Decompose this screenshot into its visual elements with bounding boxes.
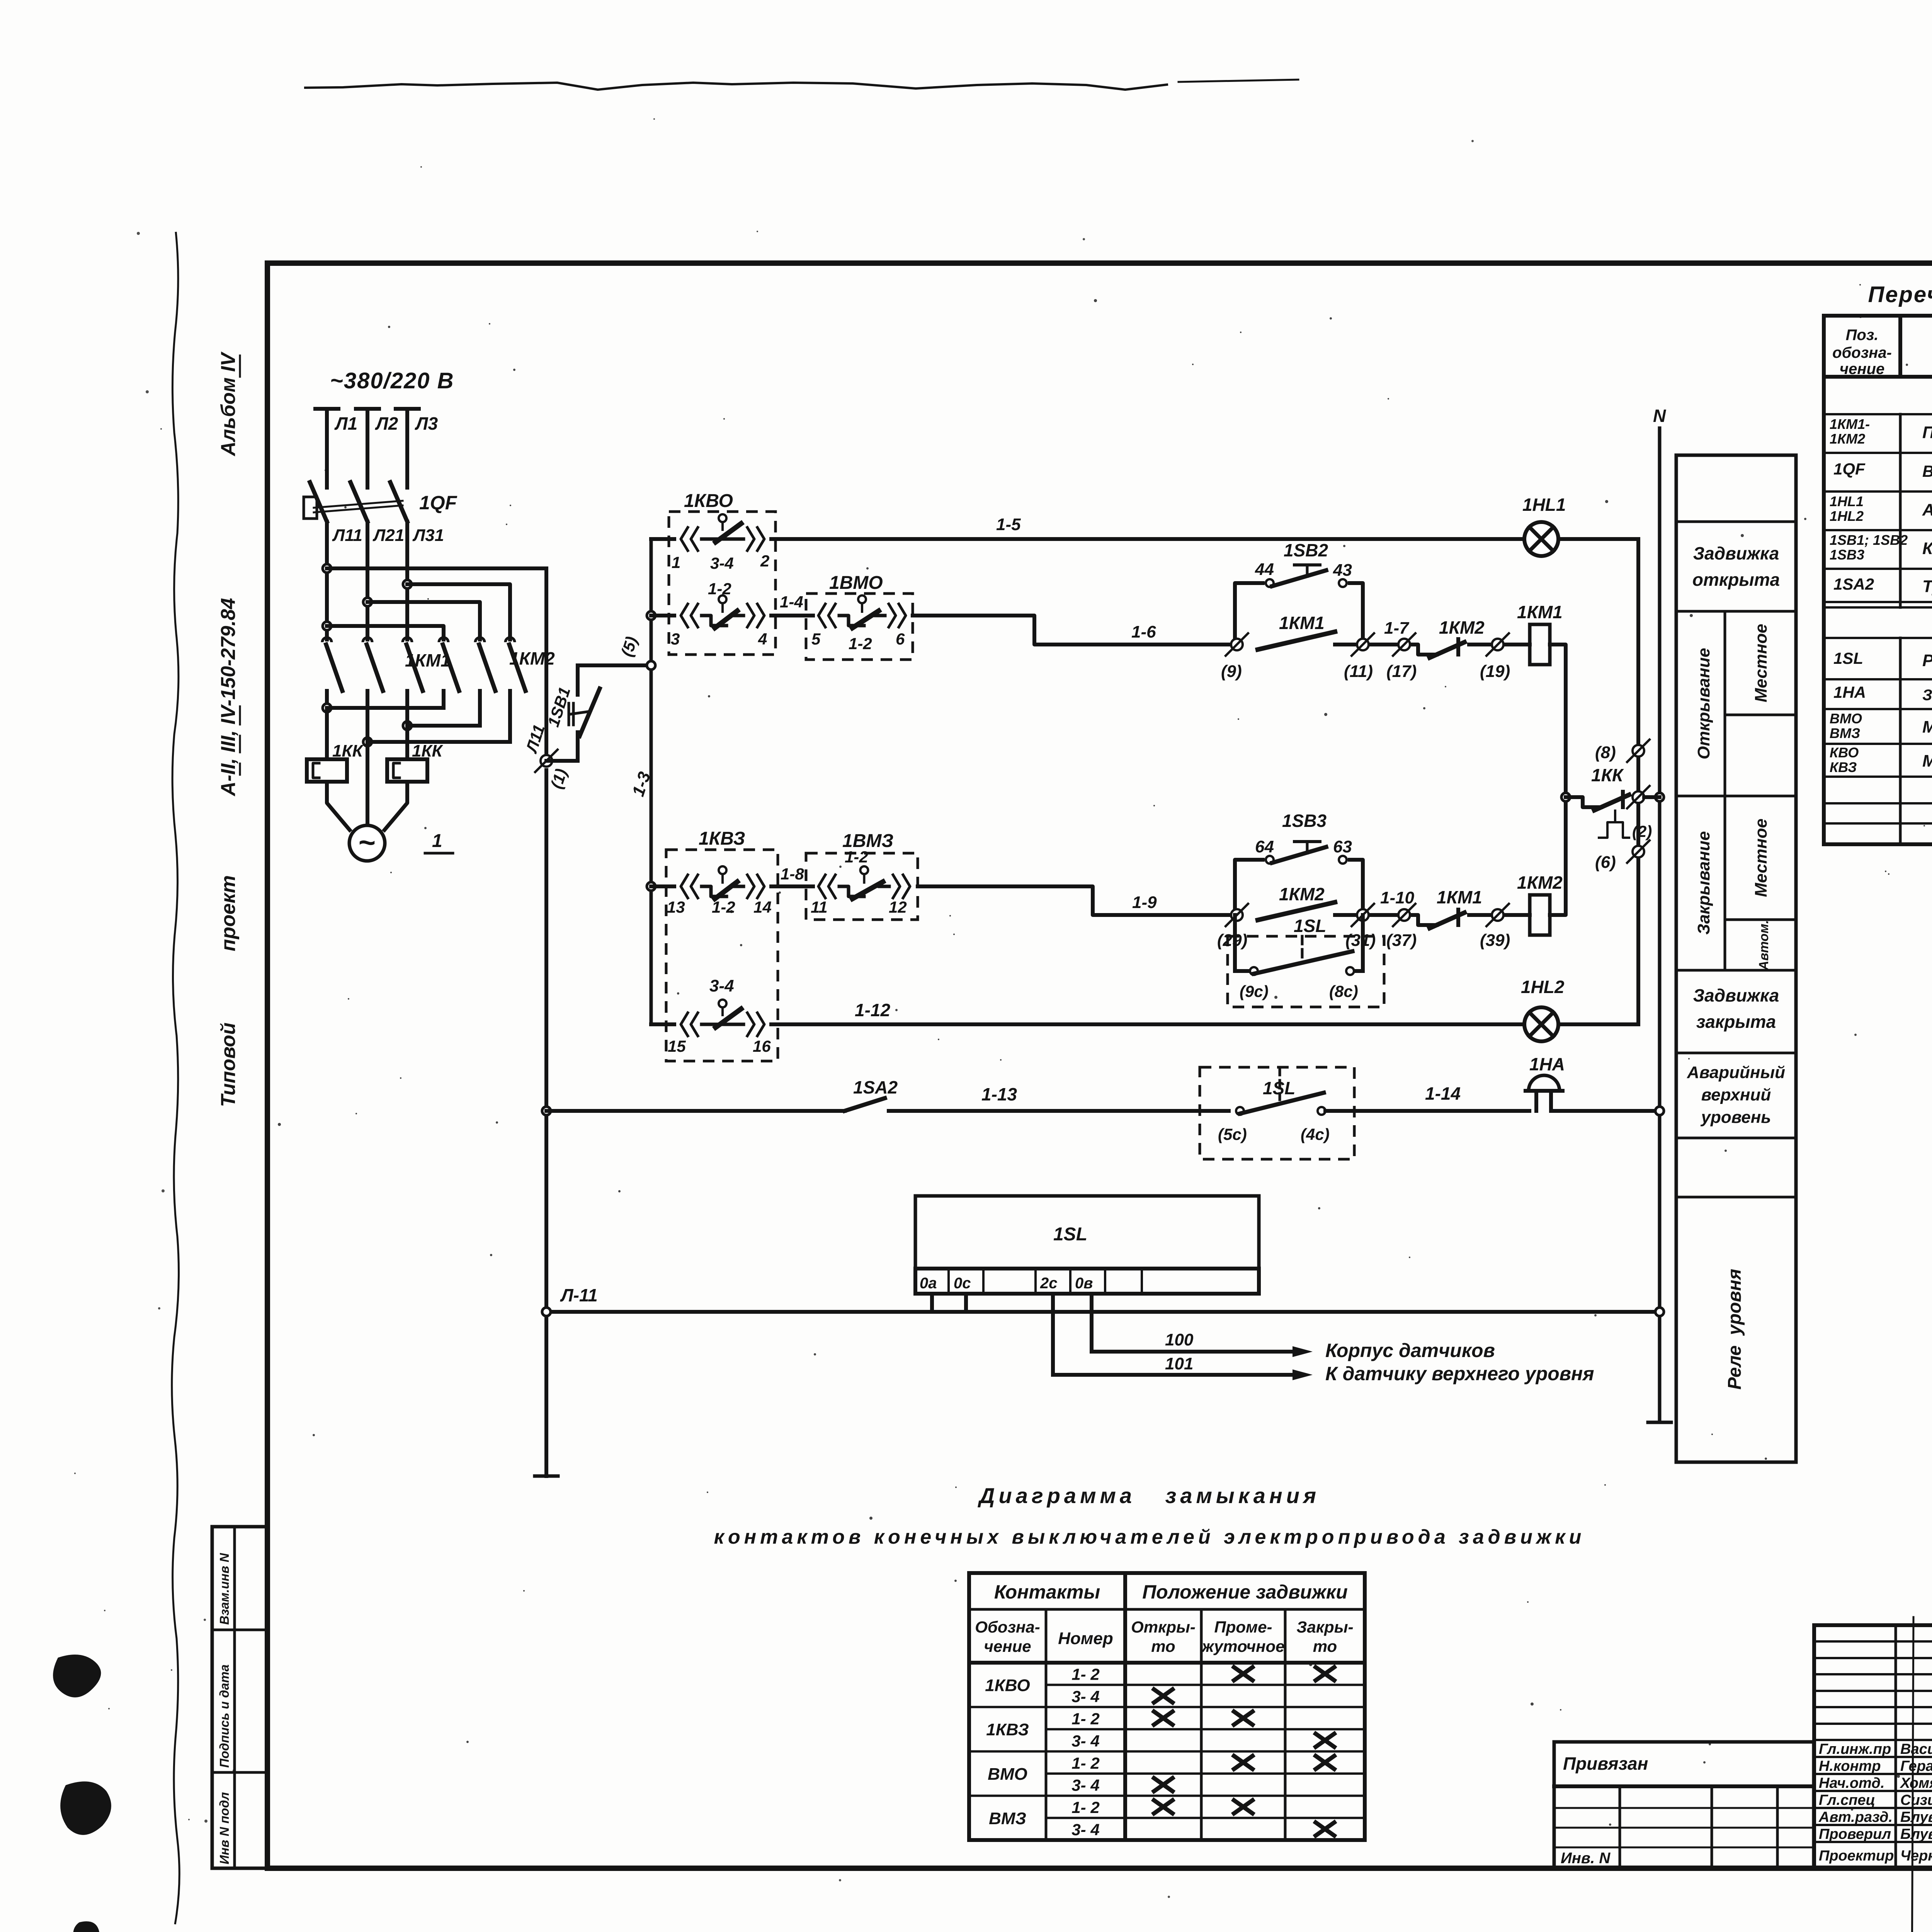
function strip row line bbox=[1676, 795, 1796, 798]
svg-text:контактов конечных выключателе: контактов конечных выключателей электроп… bbox=[714, 1526, 1585, 1548]
level relay 1SL dashed box (close) bbox=[1228, 936, 1384, 1007]
svg-text:Подпись и дата: Подпись и дата bbox=[217, 1665, 231, 1768]
scan artifact: top scratch line bbox=[305, 83, 1167, 90]
svg-text:(29): (29) bbox=[1217, 931, 1247, 950]
node N rail at alarm rung bbox=[1655, 1107, 1664, 1115]
limit switch 1KVZ contact 3-4 bbox=[681, 1013, 688, 1036]
pushbutton 1SB2 plunger bbox=[1306, 565, 1309, 577]
node on L21 crossover bbox=[363, 598, 372, 606]
pushbutton 1SB2 terminals bbox=[1266, 579, 1274, 587]
privyazan outer bbox=[1554, 1742, 1814, 1868]
svg-text:Л2: Л2 bbox=[375, 413, 398, 434]
diagram header row line2 bbox=[969, 1661, 1365, 1665]
parts table column line seg2 bbox=[1899, 414, 1902, 607]
1SL terminal divider bbox=[1069, 1269, 1071, 1294]
svg-text:(37): (37) bbox=[1386, 931, 1417, 950]
parts table row line bbox=[1824, 637, 1932, 639]
contactor 1KM2 main pole 1 bbox=[439, 638, 448, 642]
contactor 1KM2 main pole 2 bbox=[475, 638, 485, 642]
title block sig row line bbox=[1814, 1773, 1932, 1775]
svg-text:КВЗ: КВЗ bbox=[1830, 759, 1857, 775]
diagram col line prome bbox=[1200, 1609, 1203, 1840]
svg-text:Л31: Л31 bbox=[412, 526, 444, 545]
title block left grid row bbox=[1814, 1640, 1932, 1643]
wire 1SL branch left bbox=[1233, 915, 1237, 971]
svg-text:Хомяк: Хомяк bbox=[1900, 1775, 1932, 1791]
diagram row line bbox=[1046, 1728, 1365, 1730]
svg-text:открыта: открыта bbox=[1692, 570, 1780, 590]
svg-text:Нач.отд.: Нач.отд. bbox=[1819, 1775, 1884, 1791]
connection (11) bbox=[1357, 639, 1369, 650]
svg-text:1SB2: 1SB2 bbox=[1284, 540, 1328, 560]
svg-text:Гл.спец: Гл.спец bbox=[1819, 1792, 1875, 1808]
parts table column line seg1 bbox=[1898, 316, 1902, 377]
svg-text:44: 44 bbox=[1255, 560, 1274, 579]
svg-text:1HL2: 1HL2 bbox=[1830, 508, 1864, 524]
diagram X 1КВО 1- 2 col2 bbox=[1316, 1667, 1334, 1680]
svg-text:0в: 0в bbox=[1075, 1275, 1093, 1292]
svg-text:1-14: 1-14 bbox=[1425, 1083, 1461, 1104]
wire motor lead 1 bbox=[327, 782, 350, 830]
svg-text:12: 12 bbox=[889, 898, 907, 916]
wire join 1KM1p3-1KM2p2 bbox=[407, 724, 480, 728]
svg-text:(9): (9) bbox=[1221, 662, 1242, 681]
diagram X ВМО 1- 2 col2 bbox=[1316, 1756, 1334, 1769]
wire 1-8 bbox=[771, 884, 813, 888]
svg-text:1QF: 1QF bbox=[1833, 460, 1866, 478]
diagram X ВМЗ 3- 4 col2 bbox=[1316, 1823, 1334, 1836]
diagram header split bbox=[1123, 1573, 1127, 1840]
arrow 101 bbox=[1293, 1369, 1313, 1380]
terminal bar at bottom of feed bbox=[535, 1475, 558, 1478]
1SL terminal divider bbox=[982, 1269, 985, 1294]
wire L11 down to 1KK bbox=[325, 708, 329, 759]
svg-text:жуточное: жуточное bbox=[1201, 1637, 1284, 1655]
svg-text:Тумблер ТВ1-1: Тумблер ТВ1-1 bbox=[1922, 577, 1932, 596]
title block left grid row bbox=[1814, 1657, 1932, 1659]
svg-text:чение: чение bbox=[984, 1637, 1031, 1655]
connection (31) bbox=[1357, 909, 1369, 921]
svg-text:3- 4: 3- 4 bbox=[1071, 1776, 1099, 1794]
svg-text:1SL: 1SL bbox=[1833, 649, 1863, 667]
svg-text:Блувштейн: Блувштейн bbox=[1900, 1809, 1932, 1825]
phase terminal Л3 bbox=[396, 407, 419, 411]
connection (9) bbox=[1231, 639, 1243, 650]
svg-text:Н.контр: Н.контр bbox=[1819, 1758, 1881, 1774]
contactor 1KM2 aux NC contact bbox=[1411, 645, 1437, 655]
wire (31) to (37) bbox=[1370, 913, 1398, 917]
svg-text:Черкасова: Черкасова bbox=[1900, 1848, 1932, 1864]
svg-text:1HL1: 1HL1 bbox=[1522, 495, 1566, 515]
scan artifact: small mark left 3 bbox=[73, 1921, 99, 1932]
svg-text:ВМЗ: ВМЗ bbox=[1830, 725, 1860, 741]
svg-text:Типовой: Типовой bbox=[217, 1022, 240, 1107]
privyazan col bbox=[1776, 1786, 1779, 1868]
parts table row line bbox=[1824, 490, 1932, 493]
function strip row line bbox=[1676, 1052, 1796, 1054]
connection point (1) bbox=[541, 755, 552, 767]
node rail at 1-4 rung bbox=[647, 611, 655, 620]
wire Л31 bbox=[405, 539, 409, 639]
svg-text:1КМ1: 1КМ1 bbox=[405, 650, 451, 670]
diagram X 1КВО 3- 4 col0 bbox=[1154, 1689, 1173, 1702]
node on L31 crossover bbox=[403, 580, 412, 588]
svg-text:1HL2: 1HL2 bbox=[1521, 977, 1565, 997]
svg-text:(4c): (4c) bbox=[1301, 1125, 1330, 1143]
svg-text:1КВЗ: 1КВЗ bbox=[986, 1720, 1029, 1739]
svg-text:Местное: Местное bbox=[1752, 818, 1770, 897]
node rail at 1SB1 feed bbox=[647, 661, 655, 670]
svg-text:43: 43 bbox=[1333, 561, 1352, 580]
svg-text:100: 100 bbox=[1165, 1330, 1194, 1349]
svg-text:Инв. N: Инв. N bbox=[1561, 1850, 1611, 1867]
svg-text:15: 15 bbox=[668, 1037, 686, 1055]
svg-text:1-12: 1-12 bbox=[855, 1000, 890, 1020]
svg-text:1-10: 1-10 bbox=[1380, 888, 1415, 907]
diagram row line bbox=[1046, 1684, 1365, 1686]
svg-text:Звонок переменного тока ЗВП220: Звонок переменного тока ЗВП220; ~220В bbox=[1922, 687, 1932, 704]
svg-text:уровень: уровень bbox=[1701, 1108, 1771, 1127]
wire rung 1-14 bbox=[1325, 1109, 1529, 1113]
svg-text:КВО: КВО bbox=[1830, 745, 1859, 760]
svg-text:~: ~ bbox=[359, 826, 376, 859]
connection (37) bbox=[1398, 909, 1410, 921]
svg-text:1- 2: 1- 2 bbox=[1071, 1798, 1099, 1816]
node L31 bottom join bbox=[403, 721, 412, 730]
svg-text:1КВО: 1КВО bbox=[684, 491, 733, 511]
svg-text:1ВМО: 1ВМО bbox=[829, 573, 883, 593]
svg-text:N: N bbox=[1653, 406, 1666, 426]
title block outer bbox=[1814, 1625, 1932, 1868]
diagram col line nomer bbox=[1045, 1609, 1048, 1840]
wire NC to (19) bbox=[1469, 643, 1491, 646]
diagram row line bbox=[969, 1706, 1365, 1708]
svg-text:4: 4 bbox=[758, 630, 767, 648]
svg-text:3-4: 3-4 bbox=[710, 554, 734, 572]
node N rail at 1KK bbox=[1655, 793, 1664, 801]
wire close block left leg bbox=[1235, 860, 1263, 915]
wire 1-9 step bbox=[918, 886, 1235, 915]
svg-text:Пускатель магнитный ПМЕ-114: Пускатель магнитный ПМЕ-114 bbox=[1922, 423, 1932, 442]
connection (19) bbox=[1492, 639, 1503, 650]
svg-text:Проектир.: Проектир. bbox=[1819, 1848, 1898, 1864]
node rail at 1-8 rung bbox=[647, 882, 655, 891]
svg-text:Местное: Местное bbox=[1752, 624, 1770, 702]
1SL stem bbox=[1301, 936, 1304, 957]
svg-text:1- 2: 1- 2 bbox=[1071, 1665, 1099, 1684]
parts table row line bbox=[1824, 822, 1932, 825]
wire rung 1-13 left bbox=[546, 1109, 845, 1113]
svg-text:Л11: Л11 bbox=[332, 526, 362, 545]
diagram row line bbox=[969, 1750, 1365, 1753]
phase terminal Л1 bbox=[315, 407, 338, 411]
svg-text:(6): (6) bbox=[1595, 853, 1616, 872]
1SL close contact blade bbox=[1254, 951, 1352, 974]
svg-text:~380/220 В: ~380/220 В bbox=[330, 368, 454, 393]
privyazan header row bbox=[1554, 1784, 1814, 1788]
coil 1KM2 bbox=[1530, 895, 1550, 935]
thermal relay 1KK heater right bbox=[387, 759, 427, 782]
svg-text:Откры-: Откры- bbox=[1131, 1618, 1196, 1636]
svg-text:1-8: 1-8 bbox=[781, 865, 804, 883]
title block sig row line bbox=[1814, 1824, 1932, 1826]
lamp 1HL2 bbox=[1524, 1007, 1558, 1041]
title block left grid row bbox=[1814, 1690, 1932, 1692]
contactor 1KM2 aux NO blade bbox=[1258, 902, 1335, 920]
privyazan row bbox=[1554, 1827, 1814, 1829]
svg-text:Реле уровня ЭРСУ-3, ~220В: Реле уровня ЭРСУ-3, ~220В bbox=[1922, 651, 1932, 670]
bell 1HA dome bbox=[1529, 1075, 1560, 1091]
pushbutton 1SB3 terminals bbox=[1266, 856, 1274, 864]
wire rung 1-5 lamp to corner bbox=[1558, 537, 1638, 541]
scan artifact: fold line bottom middle bbox=[1912, 1617, 1913, 1932]
svg-text:ВМО: ВМО bbox=[988, 1765, 1027, 1784]
svg-text:1КМ1: 1КМ1 bbox=[1279, 613, 1325, 633]
title block sig row line bbox=[1814, 1790, 1932, 1792]
arrow 100 bbox=[1293, 1346, 1313, 1357]
phase terminal Л2 bbox=[356, 407, 379, 411]
function strip outer bbox=[1676, 455, 1796, 1462]
contactor 1KM1 aux NC contact bbox=[1411, 915, 1437, 925]
function strip split close block bbox=[1724, 796, 1726, 970]
left margin stamp table divider row 1 bbox=[212, 1629, 267, 1631]
parts table row line bbox=[1824, 678, 1932, 680]
svg-text:(9c): (9c) bbox=[1240, 982, 1269, 1000]
svg-text:1КК: 1КК bbox=[332, 742, 364, 760]
scan artifact: left torn edge bbox=[172, 232, 180, 1924]
function strip sub line close bbox=[1725, 918, 1796, 921]
svg-text:закрыта: закрыта bbox=[1696, 1012, 1776, 1032]
wire rung 1-13 mid bbox=[889, 1109, 1229, 1113]
circuit breaker 1QF poles bbox=[310, 482, 327, 522]
svg-text:6: 6 bbox=[896, 630, 905, 648]
wire Л21 bbox=[366, 539, 369, 639]
svg-text:Микропереключатели-: Микропереключатели- bbox=[1922, 718, 1932, 736]
diagram table outer bbox=[969, 1573, 1365, 1840]
svg-text:1КВЗ: 1КВЗ bbox=[699, 828, 745, 849]
parts table row line bbox=[1824, 606, 1932, 609]
diagram X 1КВЗ 1- 2 col0 bbox=[1154, 1712, 1173, 1725]
svg-text:(5c): (5c) bbox=[1218, 1125, 1247, 1143]
wire join 1KM1p2-1KM2p3 bbox=[367, 740, 510, 744]
connection (6) bbox=[1633, 846, 1644, 857]
wire rung 1-12 lamp to vertical bbox=[1558, 1022, 1638, 1026]
pushbutton 1SB1 plunger bbox=[568, 703, 570, 725]
L-11 rail bbox=[546, 1310, 1660, 1314]
wire rung 1-8 from rail bbox=[651, 884, 674, 888]
svg-text:1-2: 1-2 bbox=[712, 898, 735, 916]
svg-text:Авт.разд.: Авт.разд. bbox=[1818, 1809, 1893, 1825]
svg-text:А-II, III, IV-150-279.84: А-II, III, IV-150-279.84 bbox=[217, 598, 240, 797]
svg-text:1КК: 1КК bbox=[1591, 765, 1624, 785]
svg-text:13: 13 bbox=[667, 898, 685, 916]
svg-text:1SB1; 1SB2: 1SB1; 1SB2 bbox=[1830, 532, 1908, 548]
svg-text:проект: проект bbox=[217, 875, 240, 951]
svg-text:1SL: 1SL bbox=[1053, 1224, 1087, 1245]
pushbutton 1SB1 wires bbox=[546, 759, 578, 763]
1SL alarm contact terminals bbox=[1236, 1107, 1244, 1115]
svg-text:Арматура сигнальная АЕ 3111У3: Арматура сигнальная АЕ 3111У3 bbox=[1922, 500, 1932, 519]
privyazan col bbox=[1619, 1786, 1621, 1868]
wire L11 to control feed bbox=[327, 566, 546, 570]
svg-text:(2): (2) bbox=[1632, 822, 1652, 840]
svg-text:Задвижка: Задвижка bbox=[1693, 543, 1779, 563]
wire Л3 drop bbox=[405, 409, 409, 488]
diagram X ВМЗ 1- 2 col1 bbox=[1234, 1800, 1253, 1813]
svg-text:3-4: 3-4 bbox=[709, 976, 734, 995]
svg-text:ВМЗ: ВМЗ bbox=[989, 1809, 1026, 1828]
parts table row line bbox=[1824, 452, 1932, 454]
svg-text:1КМ2: 1КМ2 bbox=[1439, 617, 1485, 638]
svg-text:верхний: верхний bbox=[1701, 1085, 1771, 1104]
lamp 1HL1 bbox=[1524, 522, 1558, 556]
svg-text:1SB3: 1SB3 bbox=[1282, 811, 1327, 831]
wire join 1KM1p1-1KM2p1 bbox=[327, 706, 444, 710]
svg-text:1-5: 1-5 bbox=[996, 515, 1021, 534]
wire 1KK to N rail bbox=[1644, 795, 1660, 799]
contactor 1KM1 main pole 2 bbox=[363, 638, 372, 642]
wire 0a to L-11 rail bbox=[930, 1294, 934, 1312]
svg-text:1КМ1: 1КМ1 bbox=[1517, 602, 1563, 622]
toggle switch 1SA2 blade bbox=[845, 1098, 885, 1111]
svg-text:1- 2: 1- 2 bbox=[1071, 1754, 1099, 1772]
diagram X 1КВЗ 1- 2 col1 bbox=[1234, 1712, 1253, 1725]
svg-text:2с: 2с bbox=[1040, 1275, 1058, 1292]
svg-text:1-2: 1-2 bbox=[845, 848, 868, 866]
svg-text:Контакты: Контакты bbox=[994, 1581, 1100, 1603]
1SL close contact terminals bbox=[1250, 967, 1258, 975]
wire close block right leg bbox=[1350, 860, 1363, 915]
function strip row line bbox=[1676, 610, 1796, 613]
svg-text:(11): (11) bbox=[1344, 662, 1373, 681]
terminal bar at bottom of N rail bbox=[1648, 1421, 1671, 1424]
wire from 0v down bbox=[1090, 1294, 1094, 1352]
svg-text:1КМ1: 1КМ1 bbox=[1437, 887, 1482, 907]
parts table row line bbox=[1824, 413, 1932, 415]
wire motor lead 3 bbox=[384, 782, 407, 830]
wire coil 1KM2 to common bbox=[1550, 797, 1566, 915]
svg-text:63: 63 bbox=[1333, 837, 1352, 856]
svg-text:1SA2: 1SA2 bbox=[1833, 575, 1874, 593]
1SL terminal divider bbox=[947, 1269, 950, 1294]
scan artifact: ink blob left 2 bbox=[60, 1781, 111, 1835]
function strip row line bbox=[1676, 1137, 1796, 1139]
svg-text:то: то bbox=[1151, 1637, 1175, 1655]
svg-text:Л21: Л21 bbox=[372, 526, 404, 545]
limit switch 1KVO contact 3-4 bbox=[681, 527, 688, 551]
svg-text:то: то bbox=[1313, 1637, 1337, 1655]
svg-text:Кнопка управления КЕ011: Кнопка управления КЕ011 bbox=[1922, 539, 1932, 558]
svg-text:3- 4: 3- 4 bbox=[1071, 1687, 1099, 1706]
svg-text:Л3: Л3 bbox=[415, 413, 438, 434]
svg-text:Блувштейн: Блувштейн bbox=[1900, 1826, 1932, 1842]
svg-text:1-9: 1-9 bbox=[1132, 893, 1157, 912]
connection (29) bbox=[1231, 909, 1243, 921]
pushbutton 1SB1 blade bbox=[580, 689, 600, 736]
wire rung 1-12 to lamp bbox=[771, 1022, 1524, 1026]
wire L31 down to 1KK bbox=[405, 708, 409, 759]
diagram header row line bbox=[969, 1608, 1365, 1611]
lamp common vertical wire bbox=[1636, 539, 1640, 1024]
svg-text:1-13: 1-13 bbox=[981, 1084, 1017, 1104]
connection (8) bbox=[1633, 745, 1644, 757]
wire control feed vertical upper bbox=[544, 568, 548, 761]
svg-text:Проме-: Проме- bbox=[1214, 1618, 1272, 1636]
parts table outer bbox=[1824, 316, 1932, 844]
svg-text:Проверил: Проверил bbox=[1819, 1826, 1891, 1842]
svg-text:Привязан: Привязан bbox=[1563, 1753, 1648, 1774]
svg-text:чение: чение bbox=[1840, 361, 1884, 378]
diagram row line bbox=[1046, 1772, 1365, 1775]
limit switch 1KVO dashed box bbox=[669, 512, 776, 655]
wire 1-4 bbox=[771, 614, 813, 617]
left margin stamp table frame bbox=[212, 1527, 267, 1868]
svg-text:Корпус датчиков: Корпус датчиков bbox=[1325, 1340, 1495, 1361]
svg-text:5: 5 bbox=[811, 630, 821, 648]
privyazan row bbox=[1554, 1807, 1814, 1809]
svg-text:Положение задвижки: Положение задвижки bbox=[1142, 1581, 1348, 1603]
svg-text:Васильев: Васильев bbox=[1900, 1741, 1932, 1757]
parts table row line bbox=[1824, 568, 1932, 570]
svg-text:Обозна-: Обозна- bbox=[975, 1618, 1040, 1636]
wire (19) to coil 1KM1 bbox=[1505, 643, 1530, 646]
svg-text:3- 4: 3- 4 bbox=[1071, 1732, 1099, 1750]
svg-text:1- 2: 1- 2 bbox=[1071, 1710, 1099, 1728]
pushbutton 1SB2 blade bbox=[1272, 570, 1326, 586]
wire NC to (39) bbox=[1469, 913, 1491, 917]
svg-text:11: 11 bbox=[811, 898, 828, 916]
svg-text:1КВО: 1КВО bbox=[985, 1676, 1030, 1695]
drawing frame border bbox=[267, 263, 1932, 1868]
limit switch 1KVZ contact 1-2 bbox=[681, 875, 688, 898]
contactor 1KM2 main pole 3 bbox=[505, 638, 515, 642]
wire crossover from L11 to 1KM2 pole1 bbox=[327, 626, 444, 639]
svg-text:Закрывание: Закрывание bbox=[1694, 831, 1713, 935]
pushbutton 1SB3 blade bbox=[1272, 847, 1326, 863]
svg-text:Аварийный: Аварийный bbox=[1687, 1063, 1785, 1082]
function strip row line bbox=[1676, 969, 1796, 972]
function strip row line bbox=[1676, 1196, 1796, 1199]
wire Л11 bbox=[325, 539, 329, 639]
microswitch 1VMO dashed box bbox=[806, 594, 913, 660]
title block left col bbox=[1895, 1625, 1897, 1868]
title block sig row line bbox=[1814, 1841, 1932, 1843]
wire 1SL branch right bbox=[1354, 969, 1363, 973]
svg-text:Открывание: Открывание bbox=[1694, 648, 1713, 760]
diagram X ВМО 1- 2 col1 bbox=[1234, 1756, 1253, 1769]
node on L11 feeding control bbox=[323, 564, 331, 573]
wire crossover from L31 to 1KM2 pole3 bbox=[407, 584, 510, 639]
ladder left rail bbox=[650, 539, 653, 1024]
svg-text:1КМ2: 1КМ2 bbox=[1830, 431, 1865, 447]
level relay 1SL unit box bbox=[915, 1196, 1259, 1269]
svg-text:1КК: 1КК bbox=[412, 742, 444, 760]
left margin stamp table divider col bbox=[233, 1527, 236, 1868]
wire L21 down to motor bbox=[366, 708, 369, 825]
svg-text:1НА: 1НА bbox=[1529, 1054, 1565, 1074]
svg-text:Перечень элементов принципиа: Перечень элементов принципиальной схемы bbox=[1868, 282, 1932, 307]
coil 1KM1 bbox=[1530, 624, 1550, 665]
svg-text:Л-11: Л-11 bbox=[560, 1285, 598, 1305]
parts table row line bbox=[1824, 708, 1932, 710]
svg-text:0а: 0а bbox=[920, 1275, 937, 1292]
svg-text:1HL1: 1HL1 bbox=[1830, 493, 1864, 509]
node L-11 left end bbox=[542, 1308, 551, 1316]
svg-text:101: 101 bbox=[1165, 1354, 1193, 1373]
function strip row line bbox=[1676, 520, 1796, 523]
wire 101 horizontal bbox=[1053, 1373, 1293, 1377]
connection (39) bbox=[1492, 909, 1503, 921]
